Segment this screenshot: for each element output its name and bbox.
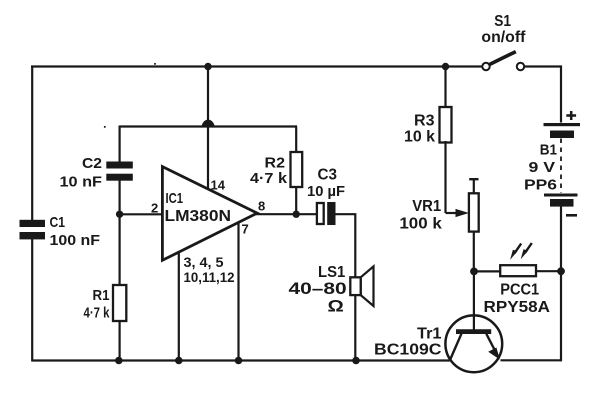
svg-text:Tr1: Tr1	[417, 326, 442, 343]
wire pin14 vertical	[207, 67, 209, 189]
node bottom rail / LS1	[352, 357, 360, 365]
svg-text:C2: C2	[82, 155, 102, 172]
svg-text:40–80: 40–80	[289, 280, 347, 298]
wire R2 top lead	[295, 127, 298, 154]
node PCC1 / right rail	[557, 267, 565, 275]
op-amp IC1 LM380N	[162, 167, 257, 261]
speaker LS1	[289, 264, 374, 316]
svg-text:4·7 k: 4·7 k	[250, 170, 288, 187]
svg-text:10,11,12: 10,11,12	[184, 269, 235, 285]
capacitor C3	[307, 167, 345, 226]
wire C3 to speaker	[336, 214, 356, 278]
svg-text:100 nF: 100 nF	[50, 232, 101, 249]
resistor R2	[250, 152, 302, 187]
wire output wire pin 8	[256, 213, 317, 215]
wire PCC1 right lead	[536, 270, 561, 272]
wire input wire pin 2	[120, 213, 163, 215]
svg-text:on/off: on/off	[481, 29, 526, 46]
wire feedback right segment	[214, 125, 297, 127]
wire C2 bottom lead	[118, 179, 120, 214]
svg-text:10 nF: 10 nF	[60, 174, 103, 191]
wire LS1 bottom lead	[354, 295, 356, 360]
wire left rail lower	[31, 239, 33, 362]
wire bottom rail	[32, 359, 450, 361]
wire VR1 bottom lead	[473, 231, 475, 272]
svg-text:R1: R1	[93, 287, 110, 304]
svg-text:4·7 k: 4·7 k	[84, 305, 110, 322]
svg-text:LM380N: LM380N	[165, 208, 232, 225]
node input / C2 / R1	[116, 211, 123, 218]
svg-text:2: 2	[151, 201, 158, 216]
svg-text:8: 8	[258, 199, 265, 214]
node top rail / R3	[442, 63, 449, 70]
svg-text:10 k: 10 k	[404, 129, 435, 146]
svg-text:7: 7	[242, 222, 249, 237]
wire Tr1 base lead	[473, 271, 475, 330]
speck	[104, 126, 106, 128]
node output / R2 / C3	[293, 211, 300, 218]
switch S1	[481, 13, 526, 70]
wire pin7 lead	[237, 222, 239, 361]
svg-text:LS1: LS1	[318, 264, 346, 281]
svg-text:RPY58A: RPY58A	[484, 299, 551, 316]
svg-text:100 k: 100 k	[399, 216, 442, 233]
node top rail / pin14	[204, 63, 211, 70]
wire R2 bottom lead	[295, 186, 297, 214]
node VR1 / PCC1 / Tr1 base	[470, 268, 478, 276]
svg-text:R2: R2	[265, 154, 286, 171]
resistor R3	[404, 107, 452, 146]
battery B1	[524, 111, 580, 215]
node bottom rail / pin7	[235, 357, 243, 365]
node bottom rail / R1	[115, 357, 123, 365]
wire left rail upper	[31, 67, 33, 221]
transistor Tr1 (BC109C)	[374, 315, 502, 372]
svg-text:B1: B1	[540, 142, 557, 159]
svg-text:10 µF: 10 µF	[307, 183, 345, 200]
wire IC ground pins lead	[178, 252, 180, 361]
svg-text:BC109C: BC109C	[374, 342, 442, 359]
wire right rail	[560, 271, 562, 361]
svg-text:C3: C3	[318, 167, 338, 184]
wire R3 to VR1 wiper	[444, 141, 446, 213]
svg-text:PP6: PP6	[524, 177, 557, 194]
wire feedback left segment	[120, 125, 202, 127]
svg-text:IC1: IC1	[166, 190, 184, 207]
wire R1 bottom lead	[118, 320, 120, 361]
svg-text:VR1: VR1	[412, 198, 441, 215]
svg-text:C1: C1	[50, 214, 66, 231]
capacitor C1	[20, 214, 101, 249]
wire C2 top lead	[118, 126, 120, 164]
capacitor C2	[60, 155, 133, 191]
wire switch to battery	[524, 67, 561, 123]
wire top rail	[31, 65, 483, 67]
wire emitter to right rail	[501, 359, 562, 361]
wire R3 top lead	[444, 67, 446, 109]
svg-text:14: 14	[211, 178, 226, 193]
wire node to PCC1 left lead	[474, 270, 501, 272]
wire R1 top lead	[118, 214, 120, 286]
wire feedback hop	[202, 120, 215, 128]
wire battery negative lead	[560, 207, 562, 272]
svg-text:3, 4, 5: 3, 4, 5	[184, 254, 224, 270]
resistor R1	[84, 285, 127, 322]
svg-text:S1: S1	[494, 13, 511, 30]
svg-text:R3: R3	[414, 112, 435, 129]
svg-text:Ω: Ω	[328, 297, 344, 316]
potentiometer VR1	[399, 179, 478, 232]
speck	[154, 63, 156, 65]
svg-text:PCC1: PCC1	[500, 282, 539, 299]
svg-text:9 V: 9 V	[529, 159, 556, 176]
photocell PCC1	[484, 243, 551, 316]
node bottom rail / IC ground	[175, 357, 183, 365]
